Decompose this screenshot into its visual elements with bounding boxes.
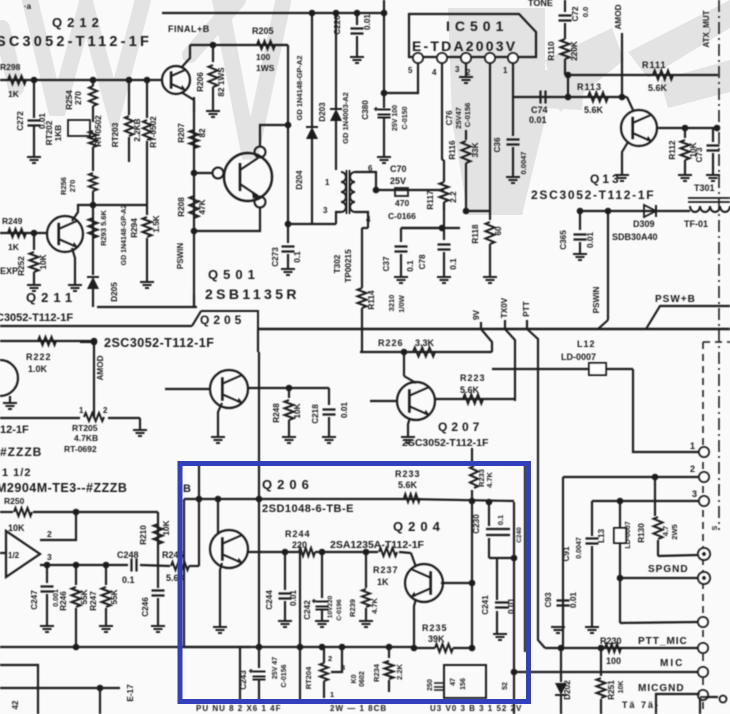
svg-text:SPGND: SPGND: [648, 564, 689, 575]
junction SPGND: [617, 575, 624, 582]
junction C70 node: [373, 187, 380, 194]
svg-text:R110: R110: [547, 41, 556, 61]
transformer T302 core: [346, 170, 348, 214]
capacitor C243 electrolytic: [258, 647, 260, 668]
ground under C220: [350, 57, 364, 63]
svg-text:C230: C230: [472, 514, 481, 534]
svg-text:25V: 25V: [390, 176, 406, 186]
junction node at C272: [31, 77, 38, 84]
ground under R248: [282, 437, 296, 443]
wire L13 column: [619, 501, 621, 528]
resistor R235 39K: [435, 644, 453, 652]
svg-text:S: S: [712, 525, 719, 530]
partial transistor left edge: [0, 360, 18, 396]
svg-text:270: 270: [68, 180, 77, 193]
wire PSWIN column bottom stub: [193, 295, 195, 307]
wire R130 to SP ring: [658, 555, 698, 556]
ground under C241: [493, 634, 507, 640]
connector pin MIC: [698, 667, 708, 677]
svg-text:R205: R205: [252, 26, 274, 36]
capacitor C365 0.01: [579, 211, 581, 230]
svg-text:1/2: 1/2: [8, 551, 20, 560]
capacitor C244 0.01: [279, 594, 292, 599]
ground under R206: [206, 111, 220, 117]
svg-text:R294: R294: [130, 218, 139, 238]
capacitor C246: [157, 565, 159, 588]
junction R239 top: [363, 549, 370, 556]
wire pin4 column down: [441, 63, 443, 160]
wire PTT_MIC rail: [545, 647, 698, 649]
svg-text:R249: R249: [2, 216, 23, 226]
svg-text:T302: T302: [333, 254, 342, 273]
svg-text:R237: R237: [373, 565, 399, 575]
svg-text:C36: C36: [493, 137, 502, 152]
svg-text:GD 1N4148-GP-A2: GD 1N4148-GP-A2: [121, 205, 128, 266]
svg-text:C248: C248: [117, 550, 139, 560]
resistor R247 55K vertical: [105, 565, 107, 585]
electrolytic capacitor C242 10V220: [316, 602, 329, 610]
svg-text:PU NU 8 2 X6 1 4F: PU NU 8 2 X6 1 4F: [196, 704, 281, 713]
svg-text:2: 2: [328, 654, 332, 663]
svg-text:C240: C240: [516, 527, 523, 543]
wire 8V stub: [480, 322, 482, 329]
svg-text:R250: R250: [4, 496, 25, 506]
ground under C37: [394, 277, 408, 283]
junction L13 top: [617, 498, 624, 505]
svg-text:C72: C72: [571, 6, 580, 21]
junction Q204 collector node: [469, 580, 476, 587]
wire L13 to SPGND and pin: [619, 543, 621, 623]
wire base rail y=80: [0, 79, 163, 81]
svg-text:2W5: 2W5: [670, 524, 679, 539]
ground under pin3: [459, 77, 473, 83]
svg-text:2.2KB: 2.2KB: [133, 118, 142, 141]
wire bottom rail y=647: [0, 646, 250, 648]
bottom right corner connector: [700, 696, 718, 698]
svg-text:LD-0007: LD-0007: [625, 521, 632, 548]
wire C243 left column: [239, 647, 241, 700]
svg-text:220: 220: [292, 540, 307, 550]
svg-text:3.3K: 3.3K: [415, 338, 435, 348]
junction C244 col: [297, 644, 304, 651]
resistor R130 vertical: [654, 477, 656, 516]
svg-text:C-0156: C-0156: [281, 664, 288, 687]
resistor R118 60 vertical: [489, 130, 491, 220]
ground under C242: [315, 621, 329, 627]
svg-text:AMOD: AMOD: [96, 355, 105, 380]
wire x=300 long column: [299, 552, 301, 702]
junction R254 column: [90, 77, 97, 84]
capacitor C247 0.001: [46, 565, 48, 583]
svg-text:R254: R254: [65, 90, 74, 110]
op-amp U1 1/2 M2904M: [6, 531, 40, 577]
junction rail-D204: [309, 10, 316, 17]
svg-text:47K: 47K: [198, 199, 207, 214]
diagonal TX0V: [505, 329, 515, 401]
connector pin unlabeled: [698, 617, 708, 627]
wire R114 column: [361, 228, 363, 288]
wire x=362 down from R114: [361, 327, 363, 352]
svg-text:0.1: 0.1: [122, 575, 135, 585]
resistor R249 1K: [8, 229, 26, 237]
svg-text:5.6K: 5.6K: [398, 480, 418, 490]
resistor R294 1.5K vertical: [146, 205, 148, 215]
svg-text:2SC3052-T112-1F: 2SC3052-T112-1F: [531, 188, 655, 202]
svg-text:R248: R248: [272, 403, 281, 423]
svg-text:C244: C244: [265, 590, 274, 610]
junction pin5 node: [381, 90, 388, 97]
svg-text:SC3052-T112-1F: SC3052-T112-1F: [0, 34, 152, 50]
ground under R112: [678, 175, 692, 181]
svg-text:0.01: 0.01: [569, 592, 578, 608]
resistor R210 10K vertical: [154, 524, 163, 544]
wire AMOD column mid: [93, 341, 95, 418]
diode D204: [306, 127, 318, 139]
ground under Q211: [68, 285, 82, 291]
junction D202 top: [558, 645, 565, 652]
resistor R117 2.2 vertical: [443, 179, 445, 182]
junction C242 top: [319, 549, 326, 556]
wire Q501 collector to top rail: [260, 125, 288, 147]
svg-text:D204: D204: [295, 170, 304, 190]
ground under R247: [99, 626, 113, 632]
wire Q204 emitter down: [414, 599, 416, 648]
svg-text:1: 1: [690, 441, 695, 451]
junction RT203 column: [126, 77, 133, 84]
svg-text:PTT_MIC: PTT_MIC: [638, 636, 688, 647]
wire AMOD column: [621, 33, 623, 97]
wire vertical x=336: [335, 13, 337, 108]
svg-text:1WS: 1WS: [256, 63, 275, 73]
svg-text:C-0166: C-0166: [388, 211, 416, 221]
svg-text:Q212: Q212: [52, 15, 104, 30]
connector ring SPGND: [698, 572, 710, 584]
junction Q206 base column: [215, 496, 222, 503]
wire Q212 collector up: [181, 45, 190, 68]
junction bus crossing: [256, 496, 263, 503]
svg-text:0.1: 0.1: [293, 251, 302, 263]
transformer T301 winding: [690, 206, 730, 212]
wire Q501 emitter to PSWIN column: [194, 207, 260, 231]
wire vertical x=312 top: [311, 13, 313, 126]
capacitor C230 0.1 wide: [486, 529, 510, 535]
wire L12 rail y=369: [492, 368, 633, 370]
wire x=384 vertical from top rail: [383, 0, 385, 108]
svg-text:C242: C242: [303, 600, 312, 620]
svg-text:GD 1N4003-A2: GD 1N4003-A2: [341, 92, 350, 144]
resistor R205 100 1WS: [257, 41, 275, 49]
capacitor C37 0.1: [400, 228, 402, 242]
wire Q211 collector to R293: [72, 205, 93, 221]
junction x=568: [565, 72, 572, 79]
wire R117 bottom to C37 rail: [401, 202, 444, 228]
resistor R246 55K vertical: [75, 565, 77, 585]
capacitor C72 0.01: [559, 16, 572, 21]
wire C91 column: [591, 501, 593, 536]
wire R232 long column down: [471, 501, 473, 648]
diode D309: [644, 205, 656, 217]
junction R2xx column: [31, 230, 38, 237]
junction Q501 collector top: [285, 122, 292, 129]
svg-text:3210: 3210: [387, 295, 396, 312]
ground under Q207: [401, 437, 415, 443]
junction PSWIN column top: [605, 208, 612, 215]
svg-text:250: 250: [427, 679, 434, 691]
svg-text:10K: 10K: [618, 681, 625, 694]
svg-text:0.01: 0.01: [507, 598, 516, 614]
svg-text:C76: C76: [445, 110, 454, 125]
svg-text:0.1: 0.1: [496, 515, 505, 525]
svg-text:R116: R116: [448, 140, 457, 160]
svg-text:4.7K: 4.7K: [370, 597, 379, 613]
IC pin circle 1: [508, 53, 518, 63]
svg-text:AMOD: AMOD: [614, 4, 623, 29]
svg-text:RT203: RT203: [111, 122, 120, 147]
svg-text:156: 156: [460, 678, 467, 690]
svg-text:C272: C272: [16, 111, 25, 131]
wire bottom rail inside box: [184, 646, 414, 648]
transistor Q207: [397, 382, 435, 420]
capacitor C220 0.01: [356, 13, 358, 25]
capacitor C218 0.01: [328, 388, 330, 405]
terminal circle Q501 collector: [255, 147, 266, 158]
capacitor C36 0.0047: [512, 97, 514, 136]
svg-text:1: 1: [325, 178, 330, 187]
potentiometer RT205: [84, 413, 104, 421]
section line y=329 long: [258, 328, 730, 330]
wire to pin y=622: [620, 622, 698, 623]
svg-text:1/0W: 1/0W: [397, 294, 406, 312]
svg-text:R233: R233: [395, 469, 421, 479]
svg-text:L13: L13: [597, 528, 606, 543]
wire x=568 down to R113 rail: [567, 75, 569, 97]
ground right of RT205: [133, 430, 147, 436]
svg-text:47: 47: [450, 678, 457, 686]
svg-text:D203: D203: [318, 102, 327, 122]
ground under C247: [40, 626, 54, 632]
wire R113 rail y=97: [513, 96, 627, 98]
svg-text:C-0196: C-0196: [336, 599, 343, 621]
wire pin2 rail y=477: [563, 476, 699, 478]
wire Q206 emitter to ground: [220, 563, 222, 626]
svg-text:2SC3052-T112-1F: 2SC3052-T112-1F: [402, 437, 489, 449]
IC pin circle 4: [437, 53, 447, 63]
svg-text:12-1F: 12-1F: [0, 424, 29, 436]
ground under C380: [377, 157, 391, 163]
transistor Q204: [405, 564, 443, 602]
svg-text:42: 42: [11, 700, 20, 709]
svg-text:RT202: RT202: [45, 120, 54, 145]
svg-text:C-0156: C-0156: [463, 103, 472, 128]
transistor Q206: [210, 530, 248, 568]
capacitor C74 0.01: [541, 91, 546, 104]
svg-text:R230: R230: [600, 636, 622, 646]
wire top rail y=13: [162, 12, 384, 14]
wire Q501 base to PSWIN column: [194, 172, 213, 174]
connector pin 1: [699, 447, 709, 457]
svg-text:3: 3: [323, 206, 328, 215]
svg-text:R117: R117: [426, 190, 435, 210]
junction AMOD R113: [619, 94, 626, 101]
wire pin5 to left column: [384, 63, 418, 93]
svg-text:1.5K: 1.5K: [152, 215, 161, 232]
wire pin3 rail y=501: [592, 500, 699, 502]
resistor R208 47K vertical: [190, 196, 199, 218]
svg-text:R246: R246: [59, 591, 68, 611]
wire C230 bottom rail: [489, 557, 514, 559]
wire secondary pin4 down: [355, 212, 368, 228]
resistor R206 82 1WS vertical: [212, 45, 214, 62]
junction left label: [91, 339, 98, 346]
svg-text:D202: D202: [563, 680, 572, 700]
capacitor C73: [712, 128, 714, 142]
wire R235 rail: [414, 647, 435, 649]
wire MIC rail: [514, 671, 698, 673]
wire Q207 collector right rail R223: [434, 398, 515, 400]
junction C273 node: [285, 221, 292, 228]
svg-text:PSWIN: PSWIN: [176, 243, 185, 269]
electrolytic capacitor C380: [378, 110, 391, 118]
svg-text:Q205: Q205: [200, 313, 245, 327]
junction R251 top: [598, 645, 605, 652]
resistor R112 10K vertical: [684, 128, 686, 138]
diagonal 8V: [481, 329, 492, 352]
resistor R239 4.7K vertical: [365, 552, 367, 588]
svg-text:C73: C73: [695, 147, 704, 162]
blue highlight rectangle: [180, 464, 529, 702]
svg-text:0.1: 0.1: [449, 258, 458, 270]
svg-text:R252: R252: [17, 256, 26, 276]
wire left edge down: [183, 499, 185, 647]
svg-text:1 1/2: 1 1/2: [2, 467, 31, 479]
svg-text:TF-01: TF-01: [684, 219, 708, 229]
ground under R252: [27, 285, 41, 291]
resistor R226 3.3K: [413, 348, 435, 357]
junction R206 column: [210, 42, 217, 49]
potentiometer RT202 1KB: [68, 120, 90, 136]
diode D203: [330, 109, 342, 121]
svg-text:MICGND: MICGND: [638, 683, 685, 694]
svg-text:TONE: TONE: [528, 0, 553, 8]
junction MIC node: [511, 669, 518, 676]
svg-text:T301: T301: [694, 183, 715, 193]
svg-text:TX0V: TX0V: [500, 297, 509, 318]
wire pin2 column down: [489, 63, 491, 130]
svg-text:25V 100: 25V 100: [392, 105, 399, 131]
resistor R232 4.7K vertical: [470, 466, 478, 488]
wire opamp input stub: [0, 552, 7, 554]
wire Q205 emitter: [218, 403, 222, 436]
svg-text:470: 470: [395, 198, 409, 208]
wire inverting input: [40, 512, 76, 540]
wire Q204 collector right: [441, 582, 472, 584]
transistor Q211: [47, 216, 83, 252]
svg-text:60: 60: [494, 226, 503, 236]
junction R244 nodes: [282, 549, 289, 556]
svg-text:E-TDA2003V: E-TDA2003V: [412, 38, 517, 54]
svg-text:5.6K: 5.6K: [584, 105, 604, 115]
resistor R233 5.6K: [404, 494, 420, 502]
wire C244 column: [284, 552, 286, 590]
junction emitter bottom: [411, 645, 418, 652]
wire D203 down to T302: [335, 121, 337, 170]
wire L12 to pin1: [633, 369, 704, 452]
svg-text:·a: ·a: [24, 2, 32, 11]
svg-text:9V: 9V: [472, 309, 481, 320]
resistor 2.2KB RT-0502: [144, 77, 151, 84]
svg-text:R239: R239: [348, 599, 357, 617]
diode D202 vertical: [560, 648, 562, 682]
IC pin circle 2: [485, 53, 495, 63]
svg-text:C218: C218: [311, 404, 320, 424]
resistor R223 5.6K: [463, 395, 483, 404]
wire C70 node to R117: [376, 189, 444, 191]
junction output nodes: [44, 562, 51, 569]
svg-text:100: 100: [256, 52, 270, 62]
resistor R248 10K vertical: [288, 388, 290, 398]
transformer T302 primary winding: [341, 172, 346, 212]
svg-text:R234: R234: [372, 663, 381, 682]
junction emitter node: [191, 228, 198, 235]
transistor Q501 power PNP: [224, 153, 272, 201]
svg-text:220K: 220K: [570, 41, 579, 61]
svg-text:RT205: RT205: [72, 423, 98, 433]
svg-text:#ZZZB: #ZZZB: [0, 445, 42, 459]
wire C242 column: [321, 552, 323, 598]
svg-text:PSW+B: PSW+B: [655, 294, 696, 305]
svg-text:5: 5: [408, 66, 413, 75]
svg-text:10K: 10K: [293, 403, 302, 418]
ground under C365: [573, 254, 587, 260]
svg-text:4.7KB: 4.7KB: [74, 433, 98, 443]
IC501 body outline: [409, 14, 536, 57]
svg-text:33K: 33K: [471, 142, 480, 157]
ground under Q13: [615, 175, 629, 181]
junction opamp feedback: [73, 509, 80, 516]
junction top rail end: [381, 10, 388, 17]
svg-text:EXP: EXP: [0, 266, 18, 276]
capacitor C93 0.01: [557, 601, 570, 606]
svg-text:IC501: IC501: [446, 18, 508, 34]
ground under R294: [140, 282, 154, 288]
capacitor C91 0.0047: [586, 539, 599, 544]
svg-text:MIC: MIC: [660, 658, 684, 669]
ground under C244: [278, 621, 292, 627]
dashed connector outline: [702, 342, 704, 714]
wire Q211 emitter: [72, 248, 75, 284]
wire C72 column from top: [564, 0, 566, 12]
svg-text:2SC3052-T112-1F: 2SC3052-T112-1F: [104, 336, 214, 350]
svg-text:PSWIN: PSWIN: [592, 286, 601, 313]
junction C243: [256, 644, 263, 651]
junction C230 bottom: [511, 555, 518, 562]
resistor R114 3210 1/0W vertical: [358, 288, 367, 308]
svg-text:R112: R112: [668, 140, 677, 160]
svg-text:TP00215: TP00215: [344, 249, 353, 283]
wire Q206 base down: [217, 499, 219, 533]
svg-text:2.2K: 2.2K: [395, 663, 404, 679]
svg-text:C70: C70: [390, 164, 407, 174]
svg-text:RT204: RT204: [304, 666, 313, 689]
wire pin4 column to R117 join: [442, 159, 444, 161]
svg-text:R244: R244: [285, 529, 311, 539]
resistor R222 1.0K: [0, 340, 94, 342]
svg-text:1K: 1K: [8, 242, 20, 252]
svg-text:5.6K: 5.6K: [648, 83, 668, 93]
wire Q205 base: [165, 388, 210, 390]
svg-text:3: 3: [692, 489, 697, 499]
svg-text:25V 47: 25V 47: [272, 657, 279, 679]
